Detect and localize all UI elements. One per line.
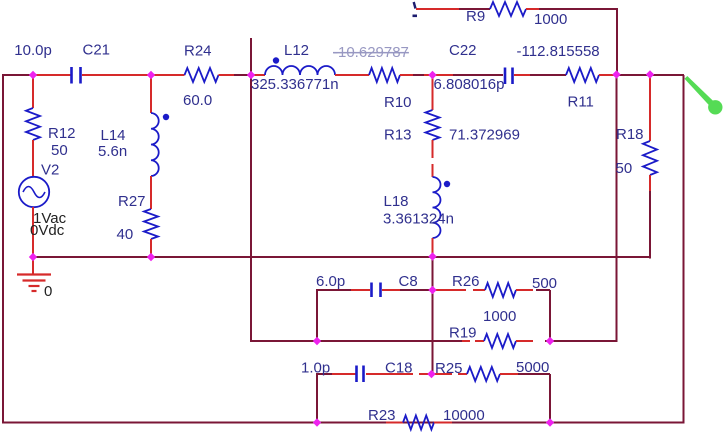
wire R26 right corner <box>536 289 550 291</box>
junction node4 <box>428 71 436 79</box>
resistor R12 <box>26 108 40 140</box>
wire node4 to R13 <box>432 75 434 110</box>
junction R19 left <box>313 337 321 345</box>
junction gnd-L18 <box>428 252 436 260</box>
wire mid rail to C8 node <box>432 257 434 290</box>
wire left-edge vertical <box>2 74 4 423</box>
wire R13 to L18 <box>432 164 434 177</box>
wire C18 lead right red1 <box>366 373 413 375</box>
wire R10 to node4 dark <box>413 74 424 76</box>
wire C8 lead right red <box>382 289 400 291</box>
wire stub vertical x251 <box>250 38 252 342</box>
wire C8 lead left dark <box>317 289 351 291</box>
wire V2 to ground rail <box>32 207 34 258</box>
junction C18-R25 <box>427 370 435 378</box>
wire node4 to C22 dark <box>453 74 503 76</box>
wire top rail right segment <box>616 74 684 76</box>
wire R18 to mid rail <box>649 191 651 259</box>
inductor L14 <box>151 113 159 176</box>
wire R19 lead left red1 <box>462 340 470 342</box>
svg-text:C21: C21 <box>83 42 111 59</box>
junction node6 <box>646 70 654 78</box>
wire into node4 <box>424 74 433 76</box>
wire C18 lead left <box>332 373 356 375</box>
svg-text:-112.815558: -112.815558 <box>517 43 600 60</box>
svg-text:50: 50 <box>51 142 68 159</box>
svg-text:R27: R27 <box>118 193 146 210</box>
wire right-edge vertical <box>683 75 685 424</box>
wire R9 lead left red <box>416 8 459 10</box>
wire R10 lead right <box>400 74 413 76</box>
junction gnd-R27 <box>147 253 155 261</box>
wire C8node to R26 red2 <box>473 289 485 291</box>
svg-text:R18: R18 <box>616 126 644 143</box>
wire ground lead <box>32 258 34 274</box>
svg-text:-10.629787: -10.629787 <box>333 44 409 61</box>
svg-text:10.0p: 10.0p <box>14 42 52 59</box>
junction node1 <box>29 71 37 79</box>
wire R18 lead bottom <box>649 175 651 191</box>
svg-text:10000: 10000 <box>443 407 485 424</box>
wire mid rail <box>33 256 651 258</box>
resistor R23 <box>403 416 434 430</box>
wire C18 lead right red2 <box>419 373 433 375</box>
svg-text:1.0p: 1.0p <box>301 360 330 377</box>
svg-text:R23: R23 <box>368 407 396 424</box>
svg-text:60.0: 60.0 <box>183 92 212 109</box>
wire C18node to R25 red2 <box>458 373 467 375</box>
svg-text:R19: R19 <box>449 325 477 342</box>
junction R19 right <box>546 337 554 345</box>
svg-text:1000: 1000 <box>483 308 516 325</box>
junction node5 <box>612 70 620 78</box>
wire node4 to C22 red <box>433 74 454 76</box>
capacitor C18 <box>357 366 364 383</box>
svg-text:50: 50 <box>616 160 633 177</box>
svg-text:R13: R13 <box>384 127 412 144</box>
resistor R10 <box>369 68 400 82</box>
wire R9 lead left dark <box>459 8 490 10</box>
svg-text:L12: L12 <box>284 42 309 59</box>
wire node6 to R18 <box>649 75 651 141</box>
wire R11 to node5 <box>599 74 617 76</box>
svg-text:R10: R10 <box>384 94 412 111</box>
wire C8 node to C18 node <box>432 290 434 374</box>
wire R9 lead right dark <box>539 8 618 10</box>
wire R13 lead bottom <box>432 140 434 158</box>
capacitor C8 <box>372 283 381 298</box>
svg-text:R11: R11 <box>568 94 594 111</box>
wire C8 lead left red <box>351 289 370 291</box>
source V2 <box>19 177 49 207</box>
svg-text:L18: L18 <box>384 193 409 210</box>
wire V2 top lead <box>32 75 34 108</box>
wire C22 lead right <box>514 74 530 76</box>
resistor R9 <box>490 2 526 16</box>
L12 polarity dot <box>273 57 279 63</box>
svg-text:5.6n: 5.6n <box>98 143 127 160</box>
junction node2 <box>147 71 155 79</box>
svg-text:40: 40 <box>117 226 134 243</box>
svg-text:0Vdc: 0Vdc <box>30 222 65 239</box>
svg-text:R9: R9 <box>466 8 485 25</box>
wire C8node to R26 red1 <box>433 289 467 291</box>
resistor R19 <box>484 334 516 348</box>
ground <box>17 275 51 292</box>
svg-text:C8: C8 <box>399 273 418 290</box>
wire R24 lead right <box>219 74 235 76</box>
junction gnd-V2 <box>29 253 37 261</box>
L14 polarity dot <box>163 114 169 120</box>
probe marker <box>685 76 714 105</box>
wire R25 lead right <box>500 373 518 375</box>
svg-text:L14: L14 <box>101 127 126 144</box>
junction C8-R26 <box>428 286 436 294</box>
wire R23 lead right <box>434 422 452 424</box>
wire C18 row left corner <box>316 373 318 423</box>
wire R26 drop to R19 <box>549 290 551 342</box>
resistor R25 <box>467 367 500 381</box>
svg-text:500: 500 <box>532 275 557 292</box>
L18 polarity dot <box>444 181 450 187</box>
wire R19 lead left red2 <box>475 340 484 342</box>
capacitor C22 <box>505 68 513 85</box>
wire C18node to R25 red1 <box>433 373 453 375</box>
wire R24 to node3 <box>234 74 252 76</box>
svg-text:71.372969: 71.372969 <box>449 127 520 144</box>
wire R23 lead left <box>386 422 403 424</box>
wire R25 right corner <box>518 373 550 375</box>
wire C8 row left corner <box>316 289 318 342</box>
resistor R26 <box>485 283 516 297</box>
svg-text:C22: C22 <box>449 42 477 59</box>
wire top rail left segment <box>2 74 34 76</box>
resistor R27 <box>144 209 158 239</box>
wire node3 to L12 <box>251 74 265 76</box>
wire R19 row from stub <box>251 340 462 342</box>
svg-text:R25: R25 <box>435 360 463 377</box>
R9 loop left tick <box>414 2 416 9</box>
svg-text:325.336771n: 325.336771n <box>251 76 339 93</box>
wire bottom rail <box>2 422 684 424</box>
wire R9 loop vertical <box>616 8 618 76</box>
inductor L18 <box>433 177 441 238</box>
resistor R13 <box>426 110 440 140</box>
wire R26 lead right <box>516 289 533 291</box>
wire R9 lead right red <box>526 8 539 10</box>
resistor R11 <box>566 68 599 82</box>
svg-text:6.808016p: 6.808016p <box>434 76 505 93</box>
wire C18 corner stub <box>317 373 332 375</box>
svg-text:V2: V2 <box>41 162 59 179</box>
wire node5 vertical x617 <box>616 75 618 342</box>
wire C8 lead right dark <box>400 289 433 291</box>
inductor L12 <box>265 66 335 75</box>
wire C22 to R11 <box>530 74 566 76</box>
svg-text:3.361324n: 3.361324n <box>383 211 454 228</box>
svg-text:R12: R12 <box>48 125 76 142</box>
junction node3 <box>247 71 255 79</box>
junction bottom-R25 <box>546 418 554 426</box>
wire node2 to L14 <box>150 75 152 113</box>
svg-text:1000: 1000 <box>534 11 567 28</box>
wire L14 to R27 <box>150 176 152 209</box>
wire node1 to C21 <box>33 74 71 76</box>
svg-text:6.0p: 6.0p <box>316 273 345 290</box>
wire R12 to V2 <box>32 140 34 178</box>
wire R27 to mid rail <box>150 239 152 258</box>
wire node2 to R24 <box>151 74 185 76</box>
svg-text:0: 0 <box>44 283 52 300</box>
wire L12 to R10 <box>335 74 369 76</box>
svg-text:5000: 5000 <box>516 359 549 376</box>
wire R25 drop to bottom <box>549 374 551 423</box>
svg-text:C18: C18 <box>385 360 413 377</box>
capacitor C21 <box>72 67 81 84</box>
resistor R18 <box>643 141 657 175</box>
wire C21 to node2 <box>82 74 151 76</box>
resistor R24 <box>185 68 219 82</box>
wire L18 to mid rail <box>432 238 434 258</box>
wire R19 lead right <box>516 340 533 342</box>
svg-text:R24: R24 <box>184 43 212 60</box>
junction bottom-C18 <box>313 418 321 426</box>
svg-text:R26: R26 <box>452 273 480 290</box>
wire R19 to x617 vertical <box>545 340 618 342</box>
